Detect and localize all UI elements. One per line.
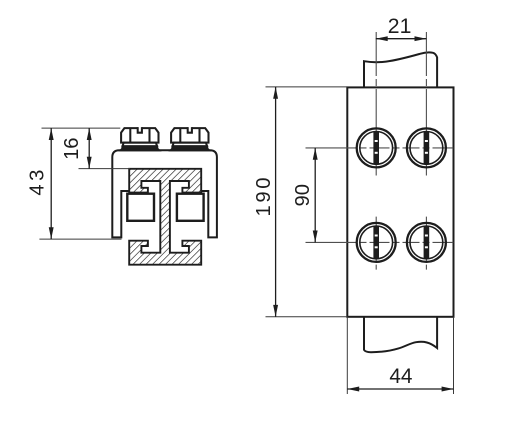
dim 90 line [314,148,316,243]
upper busbar with break line [364,52,437,87]
dim 190 line [275,87,277,317]
screw front view top-left [357,128,396,167]
row centerline bottom [306,241,454,243]
left screw (side view) [121,126,159,150]
dim 43 extension line top [42,127,121,129]
body rectangle [347,87,453,316]
dim 21 arrows [376,36,388,41]
svg-text:16: 16 [61,137,83,159]
svg-text:190: 190 [253,178,275,217]
svg-text:21: 21 [388,15,412,38]
dim 16 arrows [87,128,92,140]
dim 43 extension line bottom [39,238,121,240]
dim 190 extension lines [266,86,348,88]
dim 16 extension line bottom [79,168,131,170]
screw front view bottom-left [357,223,396,262]
row centerline top [306,147,454,149]
lower busbar with break line [364,317,437,352]
dim 90 arrows [313,148,318,160]
dim 190 arrows [273,87,278,99]
I-profile rail cross-section (hatched) [129,169,201,265]
dim 43 line [50,128,52,239]
clamp body outline with legs [112,150,217,237]
svg-text:43: 43 [27,170,49,196]
column centerline right [425,32,427,176]
screw front view bottom-right [407,223,446,262]
bottom column centerline right [425,217,427,271]
left conductor (section square) [127,194,154,221]
right screw (side view) [171,126,209,150]
column centerline left [375,32,377,176]
screw front view top-right [407,128,446,167]
dim 16 line [88,128,90,169]
bottom column centerline left [375,217,377,271]
dim 21 line [376,38,427,40]
dim 44 arrows [347,387,359,392]
dim 44 extension lines [346,317,348,394]
svg-text:44: 44 [389,365,412,388]
dim 44 line [347,388,453,390]
dim 43 arrows [49,128,54,140]
right conductor (section square) [177,194,204,221]
svg-text:90: 90 [292,184,314,206]
